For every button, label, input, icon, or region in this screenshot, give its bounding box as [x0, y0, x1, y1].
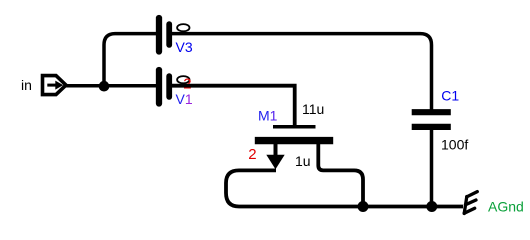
wire source elbow down to bottom rail: [318, 144, 363, 207]
node input junction: [99, 81, 110, 92]
port IN arrow: [47, 81, 63, 90]
svg-text:2: 2: [248, 146, 256, 163]
battery V1: [159, 70, 169, 104]
mosfet M1 channel bar: [255, 137, 333, 144]
wire V3 right terminal to corner down to C1: [172, 34, 432, 110]
ground AGnd symbol: [464, 192, 477, 214]
wire bulk loop to bottom rail and to ground: [226, 170, 463, 206]
wire V1 right terminal right then down to gate: [172, 86, 295, 127]
node source/bottom-rail junction: [358, 201, 369, 212]
svg-text:AGnd: AGnd: [488, 198, 524, 214]
mosfet M1 gate plate: [273, 125, 316, 129]
wire junction to V1 left terminal: [104, 84, 157, 88]
V1 polarity marker: [177, 76, 189, 83]
V3 polarity marker: [177, 24, 189, 31]
node C1/bottom-rail junction: [426, 201, 437, 212]
wire port to input junction: [66, 84, 104, 88]
svg-text:C1: C1: [441, 87, 459, 103]
mosfet M1 bulk stub and arrow: [266, 144, 284, 169]
svg-text:M1: M1: [258, 108, 278, 124]
svg-text:100f: 100f: [441, 137, 468, 153]
svg-text:1u: 1u: [295, 153, 311, 169]
port IN: [43, 76, 67, 95]
svg-text:in: in: [21, 77, 32, 93]
capacitor C1: [412, 112, 451, 127]
svg-text:11u: 11u: [302, 101, 324, 117]
battery V3: [159, 18, 169, 52]
wire C1 bottom plate to bottom rail: [430, 130, 434, 207]
svg-text:V1: V1: [176, 91, 193, 107]
wire over node 2 label: [176, 84, 202, 88]
svg-text:V3: V3: [176, 39, 193, 55]
wire junction up and right to V3 left terminal: [104, 34, 157, 86]
